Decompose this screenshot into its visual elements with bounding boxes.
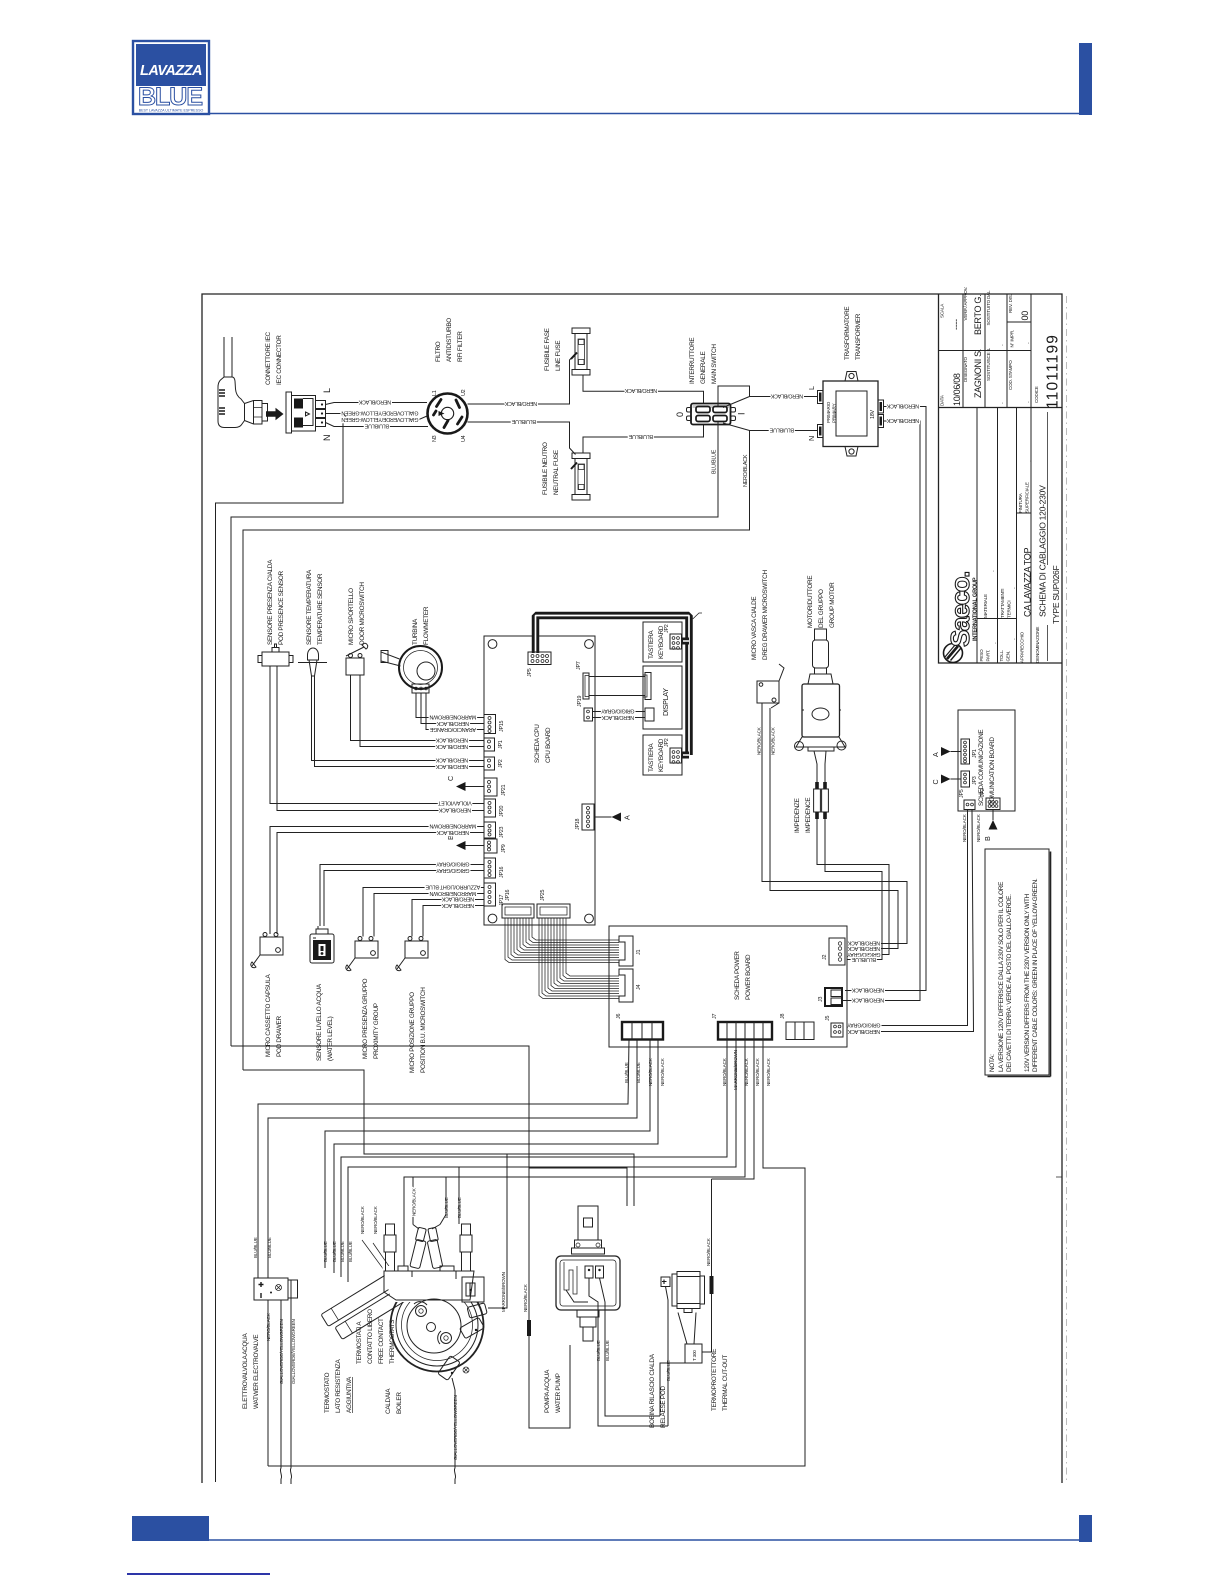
impedance 2 (822, 782, 829, 819)
svg-text:U2: U2 (461, 389, 467, 396)
svg-text:FUSIBILE NEUTRO: FUSIBILE NEUTRO (542, 442, 549, 495)
wire secondary 2 (843, 421, 920, 1001)
svg-text:JP20: JP20 (499, 805, 505, 817)
svg-text:JP9: JP9 (501, 844, 507, 853)
flowmeter (381, 646, 442, 693)
svg-text:SCHEDA CPU: SCHEDA CPU (534, 724, 541, 763)
svg-text:DREG DRAWER MICROSWITCH: DREG DRAWER MICROSWITCH (762, 570, 769, 660)
svg-text:J2: J2 (822, 955, 828, 960)
svg-text:TRANSFORMER: TRANSFORMER (855, 313, 862, 360)
svg-text:TEMPERATURE SENSOR: TEMPERATURE SENSOR (317, 573, 324, 645)
svg-text:BLU/BLUE: BLU/BLUE (332, 1241, 337, 1262)
svg-text:IMPEDENZE: IMPEDENZE (794, 798, 801, 833)
svg-text:GIALLOVERDE/YELLOWGREEN: GIALLOVERDE/YELLOWGREEN (279, 1319, 284, 1384)
svg-text:GENERALE: GENERALE (700, 352, 707, 384)
communication board (958, 710, 1015, 811)
svg-text:BLU/BLUE: BLU/BLUE (712, 449, 718, 474)
svg-text:NERO/BLACK: NERO/BLACK (436, 829, 469, 835)
svg-text:NERO/BLACK: NERO/BLACK (436, 720, 469, 726)
svg-text:JP23: JP23 (499, 826, 505, 838)
svg-text:TRATTAMENTI: TRATTAMENTI (1000, 589, 1005, 618)
svg-text:TERMOSTATO: TERMOSTATO (324, 1372, 331, 1413)
connector JP21 (484, 778, 497, 796)
svg-text:J3: J3 (818, 997, 824, 1002)
wires flowmeter to JP15 (416, 693, 484, 718)
svg-text:FLOWMETER: FLOWMETER (423, 606, 430, 645)
svg-text:ARANCIO/ORANGE: ARANCIO/ORANGE (429, 726, 476, 732)
wire J6p1 to electrovalve (258, 1040, 629, 1279)
svg-text:00: 00 (1020, 311, 1030, 321)
svg-text:MARRONE/BROWN: MARRONE/BROWN (501, 1272, 506, 1312)
CPU hole 3 (488, 914, 497, 923)
footer left block (132, 1516, 209, 1541)
wire pump inner loop top (529, 1168, 627, 1206)
svg-text:WATER PUMP: WATER PUMP (555, 1373, 562, 1413)
wire J7p2 to thermostat (348, 1040, 736, 1283)
additional thermostat (321, 1268, 419, 1340)
svg-text:NERO/BLACK: NERO/BLACK (624, 387, 657, 393)
svg-text:COMUNICATION BOARD: COMUNICATION BOARD (989, 737, 996, 806)
wire L pin to filter (326, 403, 428, 405)
sleeve cutout (710, 1276, 714, 1294)
arrow A comm (941, 747, 951, 756)
svg-text:JP2: JP2 (664, 738, 670, 747)
svg-text:JP19: JP19 (577, 695, 583, 707)
svg-text:BOILER: BOILER (396, 1392, 403, 1414)
svg-text:SOSTITUISCE IL: SOSTITUISCE IL (986, 347, 991, 381)
svg-text:18V: 18V (870, 410, 876, 419)
svg-text:BLU/BLUE: BLU/BLUE (253, 1237, 258, 1258)
svg-text:NERO/BLACK: NERO/BLACK (886, 417, 919, 423)
connector JP2cpu (484, 757, 495, 770)
svg-text:JP16: JP16 (505, 889, 511, 901)
svg-text:11011199: 11011199 (1045, 334, 1062, 409)
svg-text:FILTRO: FILTRO (435, 341, 442, 362)
svg-text:(WATER LEVEL): (WATER LEVEL) (327, 1016, 334, 1061)
main switch (687, 404, 736, 425)
coil wire blu (666, 1287, 669, 1427)
ribbon JP25 to J4 (539, 918, 619, 999)
svg-text:NEUTRAL FUSE: NEUTRAL FUSE (553, 450, 560, 495)
svg-text:J5: J5 (825, 1016, 831, 1021)
svg-text:SENSORE PRESENZA CIALDA: SENSORE PRESENZA CIALDA (267, 559, 274, 645)
wire switch to transformer N (723, 423, 818, 431)
frame tick (1056, 1176, 1062, 1178)
svg-text:NERO/BLACK: NERO/BLACK (441, 902, 474, 908)
svg-text:TOLL.: TOLL. (999, 650, 1004, 662)
line fuse (571, 328, 590, 375)
svg-text:NERO/BLACK: NERO/BLACK (360, 1205, 365, 1234)
svg-text:NERO/BLACK: NERO/BLACK (648, 1057, 653, 1086)
wire filter U4 to neutral fuse (468, 422, 576, 455)
svg-text:CPU BOARD: CPU BOARD (545, 727, 552, 763)
CPU hole 4 (585, 914, 594, 923)
svg-text:NERO/BLACK: NERO/BLACK (523, 1283, 528, 1312)
svg-text:APPARECCHIO: APPARECCHIO (1020, 631, 1025, 663)
svg-text:RELAESE POD: RELAESE POD (660, 1386, 667, 1428)
svg-text:SCALA: SCALA (940, 303, 945, 318)
svg-text:MAIN SWITCH: MAIN SWITCH (711, 344, 718, 384)
svg-text:BOBINA RILASCIO CIALDA: BOBINA RILASCIO CIALDA (649, 1353, 656, 1428)
wires dreg micro down (762, 703, 907, 944)
svg-text:NERO/BLACK: NERO/BLACK (504, 400, 537, 406)
header rule (209, 113, 1079, 115)
svg-text:THERMAL CUT-OUT: THERMAL CUT-OUT (722, 1355, 729, 1411)
wire J7p1 to thermostat (341, 1040, 727, 1278)
svg-text:TERMOSTATI A: TERMOSTATI A (356, 1321, 363, 1364)
connector JP5 (528, 652, 551, 665)
svg-text:GROUP MOTOR: GROUP MOTOR (829, 582, 836, 628)
svg-text:CODICE: CODICE (1034, 386, 1039, 403)
svg-text:MICRO PRESENZA GRUPPO: MICRO PRESENZA GRUPPO (362, 978, 369, 1059)
svg-text:L1: L1 (432, 390, 438, 396)
display board (643, 666, 682, 729)
wire N pin to filter (326, 423, 429, 427)
svg-text:POD PRESENCE SENSOR: POD PRESENCE SENSOR (278, 570, 285, 645)
ground symbol boiler (463, 1367, 469, 1373)
thermal fuse T300 (678, 1313, 702, 1364)
wire valve NERO to rail (267, 1300, 269, 1466)
CPU hole 1 (488, 640, 497, 649)
svg-text:TERMICI: TERMICI (1007, 601, 1012, 618)
svg-text:POWER BOARD: POWER BOARD (745, 954, 752, 1000)
svg-text:NERO/BLACK: NERO/BLACK (435, 737, 468, 743)
wire J7p5 to bottom rail (268, 1040, 805, 1467)
svg-text:TYPE SUP026F: TYPE SUP026F (1051, 565, 1061, 624)
svg-text:LATO RESISTENZA: LATO RESISTENZA (335, 1358, 342, 1413)
wires water level to JP16 (320, 865, 484, 927)
IEC connector inlet (286, 392, 326, 433)
wire JP18 to A (594, 816, 612, 818)
svg-text:BLUE: BLUE (138, 83, 202, 111)
wire boiler ground (452, 1378, 456, 1484)
svg-text:NOTA:: NOTA: (989, 1054, 996, 1072)
svg-text:NERO/BLACK: NERO/BLACK (766, 1057, 771, 1086)
boiler terminal block right (462, 1277, 484, 1302)
svg-text:SENSORE TEMPERATURA: SENSORE TEMPERATURA (306, 569, 313, 645)
svg-text:----: ---- (951, 319, 961, 330)
svg-text:NERO/BLACK: NERO/BLACK (757, 726, 762, 755)
pod drawer microswitch (251, 933, 283, 968)
svg-text:MARRONE/BROWN: MARRONE/BROWN (733, 1050, 738, 1090)
svg-text:BLU/BLUE: BLU/BLUE (628, 433, 653, 439)
arrow plug to inlet (266, 408, 284, 420)
svg-text:NERO/BLACK: NERO/BLACK (266, 1312, 271, 1341)
svg-text:POD DRAWER: POD DRAWER (276, 1016, 283, 1057)
svg-text:GRIGIO/GRAY: GRIGIO/GRAY (847, 951, 881, 957)
svg-text:FINITURA: FINITURA (1018, 492, 1023, 513)
connector JP1 comm (961, 739, 970, 764)
svg-text:J7: J7 (712, 1014, 718, 1019)
dreg drawer microswitch (757, 664, 784, 708)
svg-text:FREE CONTACT: FREE CONTACT (378, 1318, 385, 1364)
svg-text:SOSTITUITO DAL: SOSTITUITO DAL (986, 290, 991, 326)
connector JP5 comm (964, 800, 975, 810)
svg-text:IMPEDENCE: IMPEDENCE (805, 798, 812, 833)
svg-text:C: C (446, 776, 455, 781)
wire blu thermofuse right (458, 1167, 460, 1224)
svg-text:POMPA ACQUA: POMPA ACQUA (544, 1369, 551, 1413)
svg-text:GRIGIO/GRAY: GRIGIO/GRAY (436, 867, 470, 873)
svg-text:NERO/BLACK: NERO/BLACK (847, 945, 880, 951)
water level sensor (310, 926, 334, 963)
svg-text:B: B (983, 836, 992, 841)
svg-text:CONTATTO LIBERO: CONTATTO LIBERO (367, 1309, 374, 1364)
svg-text:Saeco.: Saeco. (945, 572, 975, 647)
svg-text:MOTORIDUTTORE: MOTORIDUTTORE (807, 576, 814, 628)
svg-text:DIFFERENT CABLE COLORS: GREEN: DIFFERENT CABLE COLORS: GREEN IN PLACE O… (1032, 878, 1039, 1072)
wire ground pin (216, 414, 344, 1483)
connector JP1 (484, 738, 495, 751)
svg-text:MICRO VASCA CIALDE: MICRO VASCA CIALDE (751, 597, 758, 660)
svg-text:ZAGNONI S.: ZAGNONI S. (973, 349, 983, 398)
svg-text:RFI FILTER: RFI FILTER (457, 331, 464, 362)
svg-text:DISEGNATO: DISEGNATO (963, 357, 968, 382)
connector JP15 (484, 715, 496, 734)
svg-text:TERMOPROTETTORE: TERMOPROTETTORE (711, 1349, 718, 1411)
RFI filter (428, 394, 468, 434)
svg-text:LAVAZZA: LAVAZZA (140, 63, 202, 79)
svg-text:MATERIALE: MATERIALE (983, 594, 988, 618)
svg-text:JP5: JP5 (527, 668, 533, 677)
svg-text:NERO/BLACK: NERO/BLACK (435, 743, 468, 749)
water electrovalve (254, 1278, 298, 1300)
svg-text:NERO/BLACK: NERO/BLACK (706, 1237, 711, 1266)
connector J3 (825, 988, 842, 1006)
svg-text:INTERRUTTORE: INTERRUTTORE (689, 338, 696, 384)
wires door micro to JP1 (351, 675, 485, 741)
wire neutral fuse to switch (583, 425, 704, 453)
connector J7 (718, 1022, 772, 1040)
svg-text:L: L (322, 388, 332, 393)
svg-text:SCHEMA DI CABLAGGIO 120-230V: SCHEMA DI CABLAGGIO 120-230V (1038, 485, 1048, 617)
wire J7p4 to cutout loop (712, 1040, 755, 1180)
header right bar (1079, 43, 1092, 115)
svg-text:C: C (931, 780, 940, 785)
svg-text:L: L (807, 386, 816, 390)
svg-text:GRIGIO/GRAY: GRIGIO/GRAY (601, 708, 635, 714)
svg-text:NERO/BLACK: NERO/BLACK (976, 813, 981, 842)
svg-text:DEL GRUPPO: DEL GRUPPO (818, 589, 825, 628)
svg-text:JP21: JP21 (501, 784, 507, 796)
svg-text:NERO/BLACK: NERO/BLACK (851, 997, 884, 1003)
svg-text:BERTO G.: BERTO G. (973, 295, 983, 335)
connector JP23 (484, 822, 496, 838)
svg-text:SUPERFICIALE: SUPERFICIALE (1025, 482, 1030, 513)
connector JP16c (484, 858, 496, 878)
connector J5 (831, 1023, 843, 1037)
keyboard 1 (643, 622, 682, 662)
svg-text:JP2: JP2 (980, 788, 986, 797)
wires pod drawer to JP23 (270, 827, 484, 935)
connector JP2 kb2 (670, 748, 682, 763)
svg-text:BEST LAVAZZA ULTIMATE ESPRESSO: BEST LAVAZZA ULTIMATE ESPRESSO (139, 109, 204, 113)
svg-text:DOOR MICROSWITCH: DOOR MICROSWITCH (359, 582, 366, 645)
wires proximity to JP17 (363, 888, 484, 937)
svg-text:JP1: JP1 (498, 740, 504, 749)
svg-text:WATWER ELECTROVALVE: WATWER ELECTROVALVE (253, 1335, 260, 1409)
svg-text:GIALLOVERDE/YELLOW-GREEN: GIALLOVERDE/YELLOW-GREEN (341, 416, 418, 422)
wire marrone branch to boiler (488, 1154, 507, 1308)
svg-text:DENOMINAZIONE: DENOMINAZIONE (1035, 627, 1040, 663)
connector JP16 (502, 904, 534, 918)
wire JP19 to display (593, 712, 646, 718)
Saeco logo (944, 572, 979, 663)
svg-text:GRIGIO/GRAY: GRIGIO/GRAY (436, 861, 470, 867)
svg-text:NERO/BLACK: NERO/BLACK (962, 813, 967, 842)
connector J4 (619, 969, 633, 1002)
svg-text:J8: J8 (780, 1014, 786, 1019)
wire J6p2 to electrovalve (268, 1040, 637, 1279)
pod presence sensor (258, 644, 293, 666)
connector JP17 (484, 883, 496, 906)
svg-text:DATA: DATA (940, 394, 945, 406)
wire switch NERO down (243, 431, 750, 1071)
wire J6p4 to thermostat (334, 1040, 658, 1274)
svg-text:BLU/BLUE: BLU/BLUE (624, 1062, 629, 1083)
connector JP2 comm (986, 798, 1000, 810)
svg-text:SENSORE LIVELLO ACQUA: SENSORE LIVELLO ACQUA (316, 983, 323, 1061)
svg-text:LA VERSIONE 120V DIFFERISCE DA: LA VERSIONE 120V DIFFERISCE DALLA 230V S… (998, 882, 1005, 1072)
svg-text:A: A (931, 752, 940, 757)
svg-text:GRIGIO/GRAY: GRIGIO/GRAY (847, 1022, 881, 1028)
CPU board U1 (484, 636, 595, 925)
svg-text:BLU/BLUE: BLU/BLUE (323, 1241, 328, 1262)
svg-text:JP16: JP16 (499, 866, 505, 878)
CPU hole 2 (585, 640, 594, 649)
connector JP3 comm (961, 771, 970, 787)
mains plug (218, 337, 268, 428)
svg-text:NERO/BLACK: NERO/BLACK (847, 1028, 880, 1034)
connector JP20 (484, 799, 496, 817)
svg-text:MARRONE/BROWN: MARRONE/BROWN (429, 823, 476, 829)
svg-text:MICRO CASSETTO CAPSULA: MICRO CASSETTO CAPSULA (265, 974, 272, 1057)
svg-text:BLU/BLUE: BLU/BLUE (364, 423, 389, 429)
wires pod presence to JP20 (270, 666, 484, 804)
thick keyboard cable (536, 616, 690, 756)
svg-text:MARRONE/BROWN: MARRONE/BROWN (429, 890, 476, 896)
svg-text:REV. DIS.: REV. DIS. (1008, 294, 1013, 313)
wire blu V-thermo (445, 1177, 447, 1215)
svg-text:PRIMARIO: PRIMARIO (826, 401, 831, 423)
boiler mounting tabs (438, 1303, 487, 1381)
drawing frame (202, 294, 1062, 1483)
thermofuse right (460, 1224, 472, 1271)
svg-text:NERO/BLACK: NERO/BLACK (601, 714, 634, 720)
svg-text:JP15: JP15 (499, 720, 505, 732)
wire valve ground 1 (280, 1300, 281, 1484)
svg-text:PART.: PART. (986, 650, 991, 662)
svg-text:NERO/BLACK: NERO/BLACK (373, 1205, 378, 1234)
connector J1 (619, 936, 633, 966)
arrow B comm (992, 810, 994, 821)
motor wires to impedances (814, 751, 826, 783)
wire switch to transformer L (718, 386, 818, 408)
svg-text:FUSIBILE FASE: FUSIBILE FASE (544, 328, 551, 371)
svg-text:N: N (807, 436, 816, 441)
svg-text:INTERNATIONAL GROUP: INTERNATIONAL GROUP (973, 577, 979, 641)
connector J6 (622, 1022, 663, 1040)
svg-text:NERO/BLACK: NERO/BLACK (412, 1187, 417, 1216)
connector JP25 (537, 904, 570, 918)
svg-text:LINE FUSE: LINE FUSE (555, 341, 562, 371)
svg-text:CALDAIA: CALDAIA (385, 1388, 392, 1414)
svg-text:I: I (737, 413, 747, 415)
svg-text:J4: J4 (636, 985, 642, 990)
svg-text:MICRO POSIZIONE GRUPPO: MICRO POSIZIONE GRUPPO (409, 992, 416, 1073)
svg-text:BLU/BLUE: BLU/BLUE (851, 956, 876, 962)
wire J7p3 to boiler (404, 1040, 745, 1272)
svg-text:PRIMARY: PRIMARY (832, 403, 837, 423)
svg-text:BLU/BLUE: BLU/BLUE (511, 418, 536, 424)
wires temp sensor to JP2 (312, 676, 485, 761)
connector JP19 (584, 708, 654, 721)
svg-text:BLU/BLUE: BLU/BLUE (340, 1241, 345, 1262)
svg-text:N3: N3 (432, 435, 438, 442)
svg-text:U4: U4 (461, 435, 467, 442)
impedance wires to J2 (817, 819, 889, 955)
pump wires (589, 1278, 668, 1426)
svg-text:BLU/BLUE: BLU/BLUE (605, 1340, 610, 1361)
svg-text:BLU/BLUE: BLU/BLUE (596, 1340, 601, 1361)
svg-text:TASTIERA: TASTIERA (648, 743, 655, 772)
svg-text:DISPLAY: DISPLAY (661, 688, 670, 716)
svg-text:NERO/BLACK: NERO/BLACK (435, 757, 468, 763)
wire blu rail to pump loop (231, 1046, 570, 1428)
power board (609, 926, 847, 1047)
svg-text:NERO/BLACK: NERO/BLACK (886, 403, 919, 409)
svg-text:GIALLOVERDE/YELLOWGREEN: GIALLOVERDE/YELLOWGREEN (291, 1319, 296, 1384)
svg-text:T 300: T 300 (692, 1350, 697, 1361)
svg-text:IEC CONNECTOR: IEC CONNECTOR (276, 335, 283, 385)
svg-text:JP5: JP5 (959, 789, 965, 798)
svg-text:DEI CAVETTI DI TERRA: VERDE AL: DEI CAVETTI DI TERRA: VERDE AL POSTO DEL… (1006, 894, 1013, 1072)
svg-text:N: N (322, 435, 332, 441)
svg-text:TRASFORMATORE: TRASFORMATORE (844, 307, 851, 360)
svg-text:BLU/BLUE: BLU/BLUE (769, 427, 794, 433)
svg-text:AZZURRO/LIGHT BLUE: AZZURRO/LIGHT BLUE (425, 884, 480, 890)
arrow B at JP9 (456, 841, 466, 850)
svg-text:COD. STAMPO: COD. STAMPO (1008, 360, 1013, 390)
svg-text:NERO/BLACK: NERO/BLACK (755, 1057, 760, 1086)
connector JP2 kb1 (670, 634, 682, 649)
svg-text:SCHEDA POWER: SCHEDA POWER (734, 951, 741, 1000)
svg-text:JP3: JP3 (972, 776, 978, 785)
connector J2 (829, 938, 845, 965)
svg-text:NERO/BLACK: NERO/BLACK (847, 940, 880, 946)
svg-text:BLU/BLUE: BLU/BLUE (444, 1197, 449, 1218)
wires JP5 comm to J5 (847, 810, 968, 1026)
door microswitch (346, 643, 368, 675)
arrow C at JP21 (456, 782, 466, 791)
svg-text:BLU/BLUE: BLU/BLUE (636, 1062, 641, 1083)
svg-text:TASTIERA: TASTIERA (648, 630, 655, 659)
svg-text:NERO/BLACK: NERO/BLACK (770, 393, 803, 399)
connector JP9 (484, 839, 497, 853)
svg-text:JP2: JP2 (664, 624, 670, 633)
connector J8 (786, 1022, 814, 1040)
position microswitch (396, 937, 428, 971)
svg-text:MARRONE/BROWN: MARRONE/BROWN (429, 714, 476, 720)
svg-text:PROXIMITY GROUP: PROXIMITY GROUP (373, 1003, 380, 1059)
fold dash line (1066, 296, 1068, 1480)
svg-text:VIOLA/VIOLET: VIOLA/VIOLET (437, 800, 472, 806)
svg-text:PESO: PESO (979, 649, 984, 662)
wire valve ground 2 (290, 1298, 291, 1484)
arrow C comm (941, 775, 951, 784)
footer rule (209, 1539, 1079, 1541)
wire ground stub filter (344, 415, 427, 420)
